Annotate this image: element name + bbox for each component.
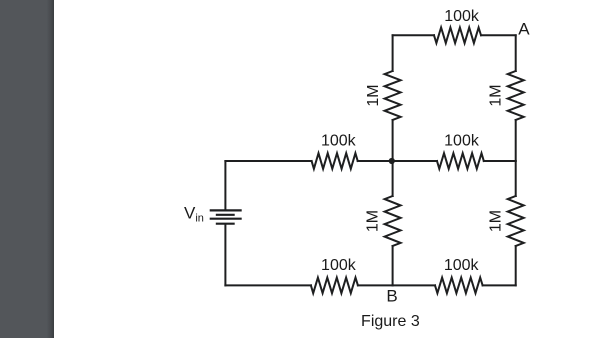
svg-text:1M: 1M bbox=[365, 210, 382, 232]
wire bottom wire right of node B bbox=[393, 284, 435, 286]
resistor R2 1M (upper left) bbox=[365, 71, 401, 120]
svg-text:Figure 3: Figure 3 bbox=[361, 313, 420, 330]
resistor R8 100k (bottom left) bbox=[311, 257, 358, 293]
wire left column upper stub bbox=[392, 35, 394, 71]
resistor R6 100k (middle left) bbox=[312, 133, 358, 169]
resistor R4 1M (upper right) bbox=[488, 71, 524, 120]
svg-text:100k: 100k bbox=[321, 257, 357, 274]
wire middle wire from source bbox=[225, 160, 311, 162]
wire source branch upper bbox=[224, 161, 226, 210]
resistor R1 100k (top) bbox=[434, 8, 481, 43]
wire right column upper stub bbox=[515, 35, 517, 71]
svg-text:100k: 100k bbox=[444, 8, 480, 25]
resistor R5 1M (lower right) bbox=[488, 196, 524, 246]
resistor R3 1M (lower left) bbox=[365, 196, 401, 246]
wire bottom wire right segment bbox=[483, 284, 516, 286]
wire right column below middle wire bbox=[515, 161, 517, 196]
wire left column lower stub bbox=[392, 246, 394, 285]
wire top-left segment bbox=[393, 34, 434, 36]
wire middle wire right of node bbox=[393, 160, 437, 162]
svg-text:100k: 100k bbox=[444, 257, 480, 274]
svg-text:1M: 1M bbox=[488, 84, 505, 106]
svg-text:B: B bbox=[386, 286, 397, 305]
svg-text:A: A bbox=[518, 19, 530, 38]
wire top-right segment bbox=[481, 34, 516, 36]
battery Vin bbox=[211, 210, 241, 223]
wire bottom wire from source bbox=[225, 284, 311, 286]
svg-text:Vin: Vin bbox=[184, 203, 204, 224]
wire source branch lower bbox=[224, 225, 226, 286]
wire right column to middle wire bbox=[515, 120, 517, 161]
wire left column to center node bbox=[392, 120, 394, 161]
svg-text:1M: 1M bbox=[365, 84, 382, 106]
sidebar panel bbox=[0, 0, 54, 338]
wire middle wire to center node bbox=[358, 160, 393, 162]
svg-text:1M: 1M bbox=[488, 210, 505, 232]
wire left column below center node bbox=[392, 161, 394, 196]
wire right column lower stub bbox=[515, 246, 517, 285]
wire middle wire right segment bbox=[484, 160, 516, 162]
svg-text:100k: 100k bbox=[444, 133, 480, 150]
svg-text:100k: 100k bbox=[321, 133, 357, 150]
resistor R9 100k (bottom right) bbox=[435, 257, 483, 293]
wire bottom wire to node B bbox=[358, 284, 393, 286]
resistor R7 100k (middle right) bbox=[437, 133, 484, 169]
junction center node bbox=[389, 158, 395, 164]
